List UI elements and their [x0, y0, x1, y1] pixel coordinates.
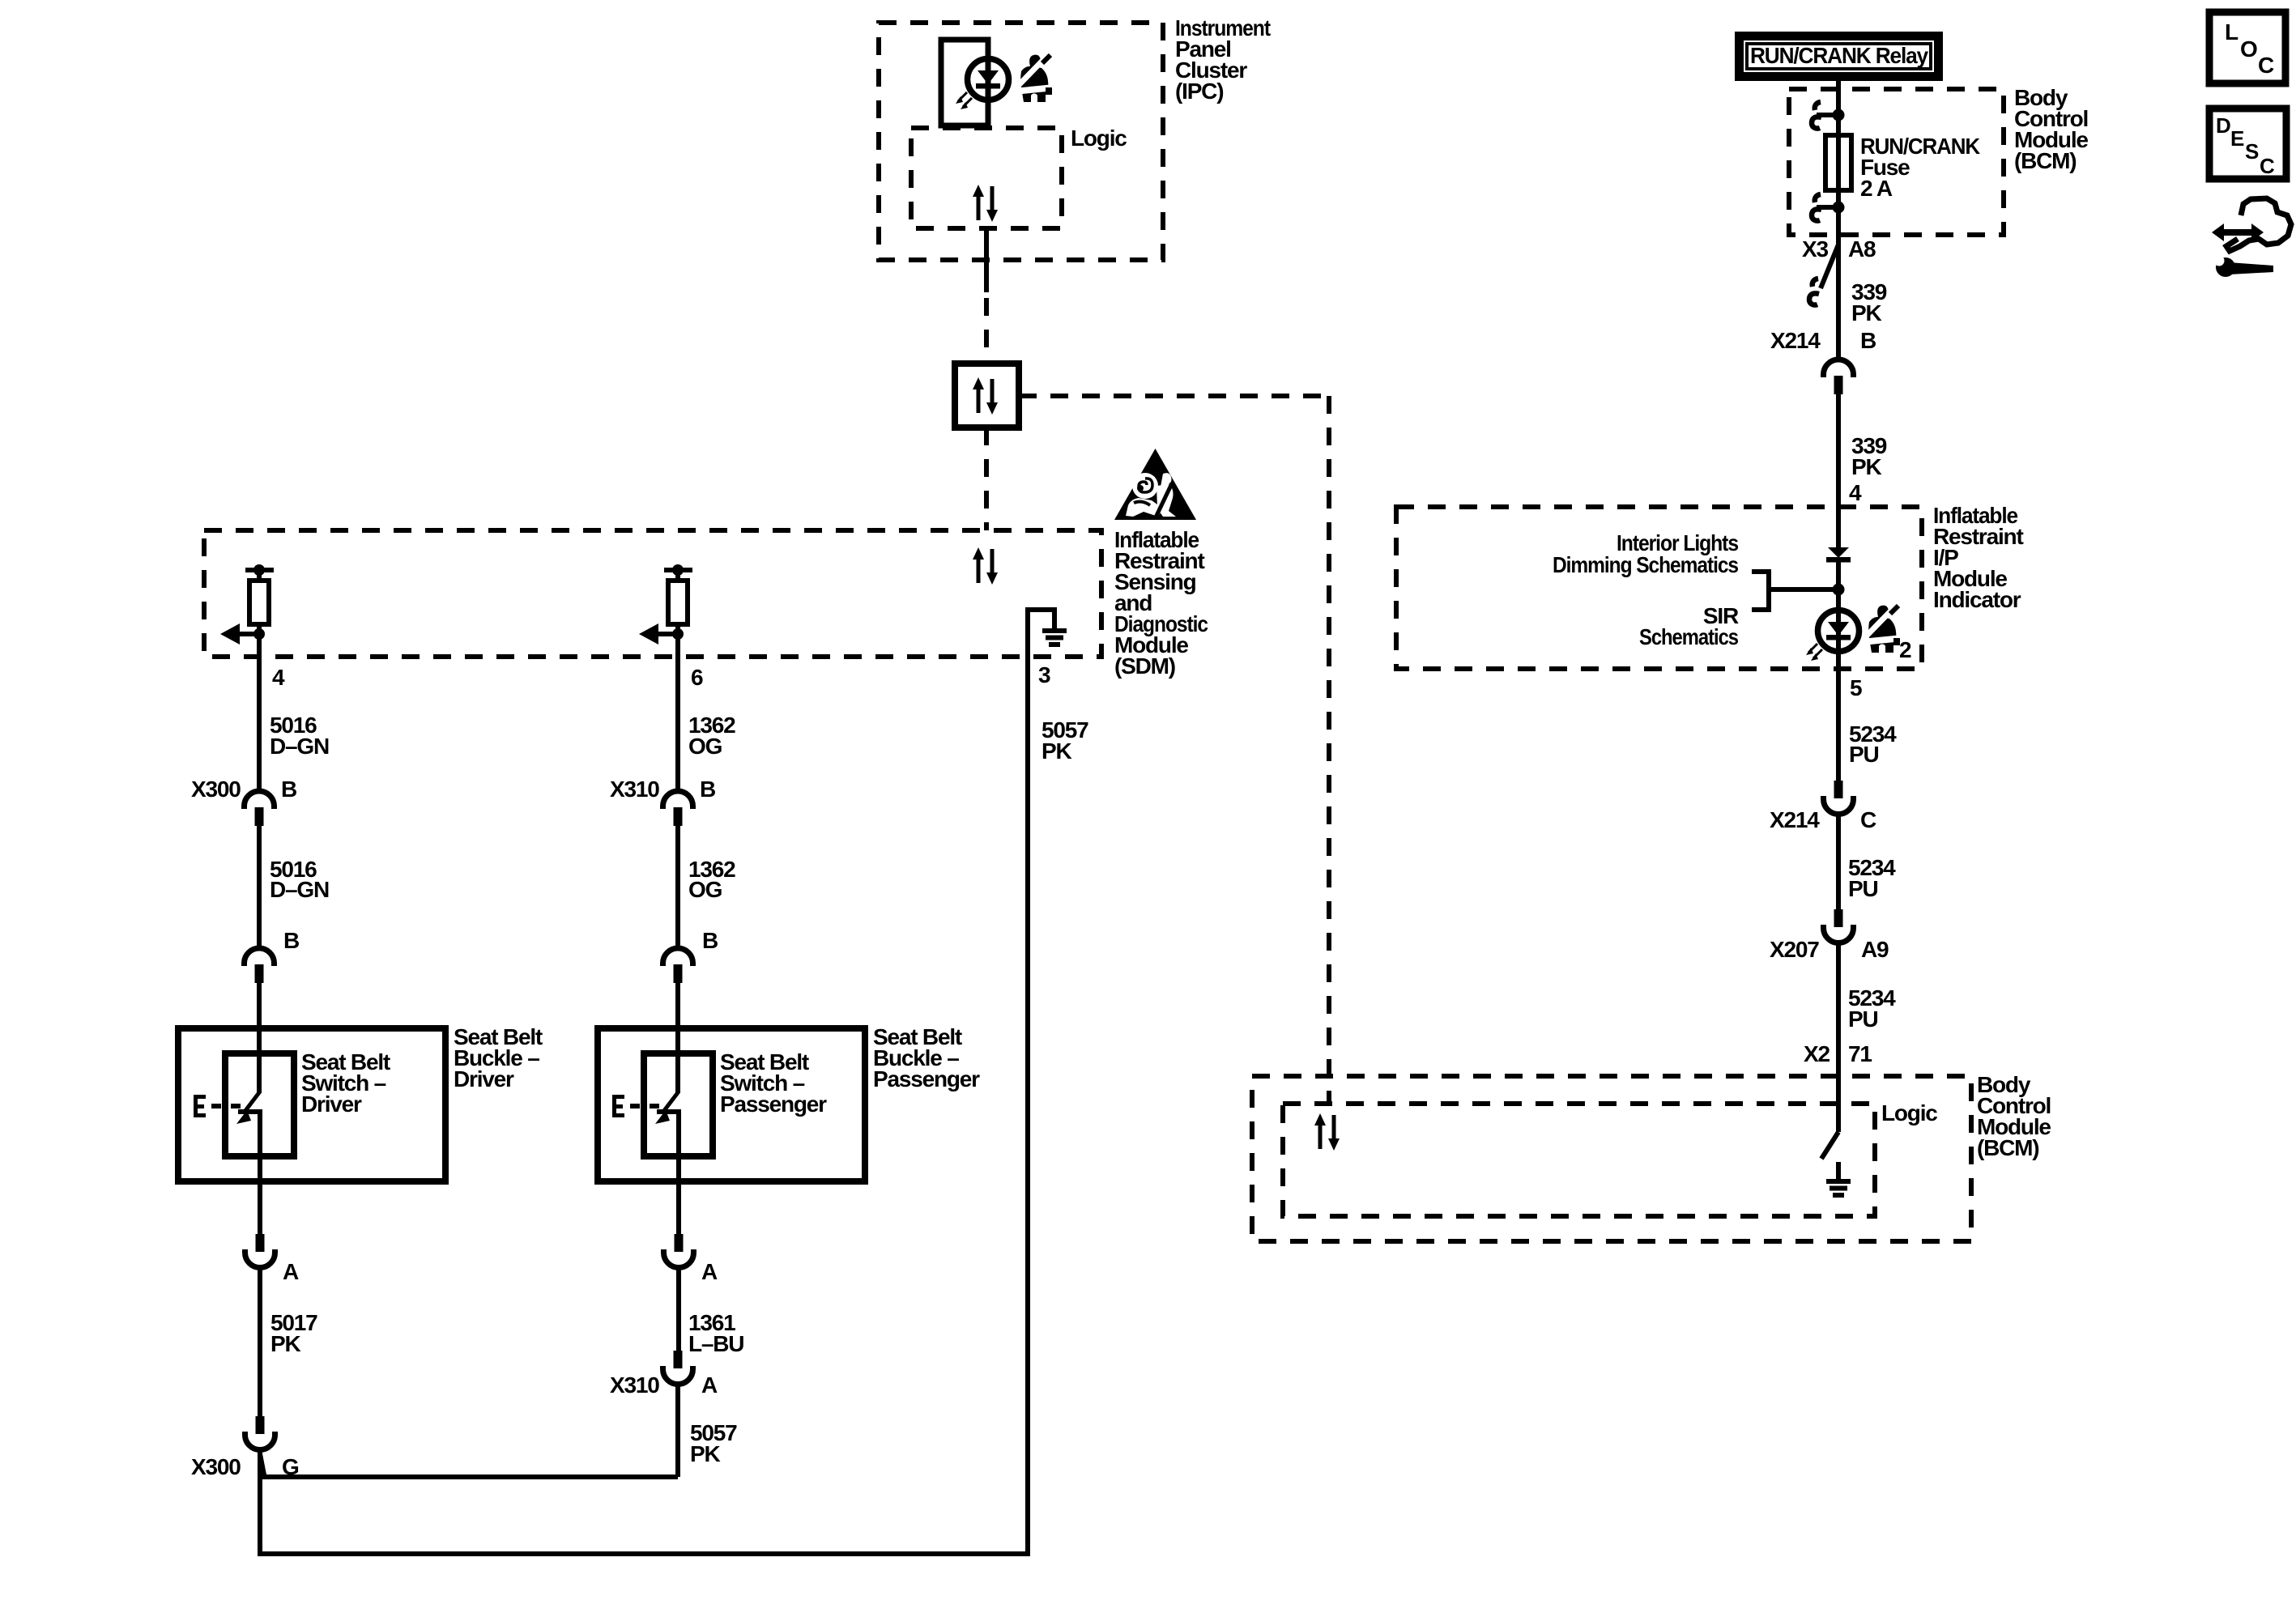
svg-text:C: C [1860, 807, 1876, 832]
wire X207 to BCM [1836, 943, 1841, 1132]
RUN/CRANK Fuse 2 A [1825, 135, 1851, 190]
seat belt icon (IPC) [1018, 55, 1052, 102]
wire label 5234 PU (2) [1848, 855, 1896, 901]
wire label 5234 PU (1) [1849, 721, 1897, 767]
wire X214C to X207 [1836, 814, 1841, 909]
inner switch rect (driver) [225, 1053, 294, 1156]
lower contact (driver) [238, 1112, 260, 1181]
ground hook at SDM [1028, 610, 1054, 628]
wire below X300 B [257, 825, 262, 949]
wire below passenger switch box [676, 1181, 681, 1234]
connector seat belt buckle driver pin B [245, 948, 275, 983]
svg-text:(BCM): (BCM) [2014, 148, 2076, 173]
wire: SDM pin 6 down to X310 [675, 640, 680, 792]
wire resistor to node (passenger) [675, 624, 680, 640]
wire label 5057 PK (passenger) [690, 1420, 737, 1466]
svg-text:X3: X3 [1802, 236, 1828, 262]
svg-text:B: B [702, 928, 718, 953]
svg-text:C: C [2260, 154, 2275, 178]
serial data communication node box [955, 364, 1019, 428]
RUN/CRANK Relay title box [1735, 32, 1943, 81]
repair info arrow-wrench icon [2212, 198, 2291, 277]
svg-text:Logic: Logic [1881, 1100, 1937, 1126]
wire label 5016 D-GN (lower) [270, 857, 329, 902]
svg-text:(SDM): (SDM) [1114, 653, 1175, 679]
svg-text:2: 2 [1899, 637, 1911, 662]
svg-text:B: B [281, 777, 296, 802]
svg-text:X214: X214 [1770, 328, 1821, 353]
connector X300 pin B [245, 791, 275, 826]
IPC Logic box [911, 128, 1062, 228]
svg-text:4: 4 [272, 665, 285, 690]
wire resistor to node [257, 624, 262, 640]
BCM upper label [2014, 85, 2088, 173]
wire label 5016 D-GN (upper) [270, 713, 329, 759]
resistor (passenger sense pull-up) [668, 581, 688, 624]
svg-text:(IPC): (IPC) [1175, 79, 1223, 104]
wire label 1362 OG (lower) [688, 857, 735, 902]
wire 5057 PK passenger down to splice [675, 1384, 680, 1477]
wire junction below X300 G [258, 1449, 262, 1556]
wire label 5017 PK [270, 1310, 317, 1356]
wire label 1361 L-BU [688, 1310, 743, 1356]
svg-text:X300: X300 [191, 1454, 241, 1479]
svg-text:X2: X2 [1804, 1041, 1830, 1066]
switch blade (passenger) [663, 1091, 679, 1112]
svg-text:PU: PU [1849, 742, 1879, 767]
svg-text:Schematics: Schematics [1639, 624, 1739, 649]
wire from relay into BCM [1836, 81, 1841, 135]
sense arrow (driver) [240, 632, 259, 636]
svg-text:4: 4 [1849, 480, 1862, 505]
bottom ground run wire [258, 1551, 1030, 1556]
BCM lower label [1977, 1072, 2051, 1160]
svg-text:D: D [2216, 113, 2230, 138]
sense arrow (passenger) [658, 632, 678, 636]
BCM lower Logic box [1283, 1104, 1875, 1216]
dashed serial data wire down right side to BCM [1327, 396, 1331, 1104]
Inflatable Restraint I/P Module Indicator box [1396, 507, 1922, 669]
connector X207 pin A9 [1824, 909, 1854, 943]
svg-text:2 A: 2 A [1860, 176, 1893, 201]
Inflatable Restraint Sensing and Diagnostic Module (SDM) box [204, 530, 1101, 657]
svg-text:D–GN: D–GN [270, 734, 329, 759]
svg-text:Driver: Driver [454, 1066, 514, 1091]
svg-text:L: L [2225, 19, 2238, 45]
junction dot passenger resistor top [672, 564, 684, 576]
svg-text:71: 71 [1848, 1041, 1872, 1066]
wire stub to resistor R driver [257, 570, 262, 581]
wire from IPC logic down [984, 228, 989, 292]
svg-text:PK: PK [1851, 300, 1881, 326]
wire below driver switch box [258, 1181, 262, 1234]
indicator LED lamp [1806, 611, 1859, 662]
svg-text:X207: X207 [1770, 937, 1819, 962]
SDM driver resistor pull-up: top rail [245, 568, 274, 572]
wire: IPC lamp loop [941, 40, 988, 126]
svg-text:PU: PU [1848, 1006, 1878, 1032]
svg-text:PK: PK [690, 1441, 720, 1466]
Instrument Panel Cluster (IPC) module box [879, 23, 1163, 260]
wire label 339 PK (lower) [1851, 433, 1887, 479]
connector X214 pin B [1824, 360, 1854, 394]
svg-text:Passenger: Passenger [720, 1091, 827, 1117]
ground wire up to SDM pin 3 [1025, 607, 1030, 1556]
wire label 5234 PU (3) [1848, 985, 1896, 1032]
svg-text:B: B [283, 928, 299, 953]
svg-text:C: C [2258, 53, 2274, 78]
svg-text:OG: OG [688, 734, 722, 759]
wire into driver switch box [257, 982, 262, 1093]
wire 1361 L-BU [676, 1267, 681, 1351]
svg-text:PU: PU [1848, 876, 1878, 901]
svg-text:X300: X300 [191, 777, 241, 802]
indicator lamp (seat belt LED) in IPC [956, 59, 1009, 110]
seat belt icon (indicator) with 2 [1866, 606, 1900, 653]
junction dot driver sense node [253, 628, 265, 640]
tap wire to schematic references [1769, 587, 1838, 592]
svg-text:Indicator: Indicator [1933, 587, 2021, 612]
wire label 1362 OG (upper) [688, 713, 735, 759]
svg-text:O: O [2240, 36, 2257, 62]
svg-text:L–BU: L–BU [688, 1331, 743, 1356]
Body Control Module (BCM) lower box [1252, 1076, 1971, 1241]
actuator E-- (driver) [194, 1095, 241, 1117]
wire: SDM pin 4 down to X300 [257, 640, 262, 792]
wire diode to node [1836, 562, 1841, 611]
svg-text:A: A [701, 1372, 718, 1398]
svg-text:X214: X214 [1770, 807, 1820, 832]
connector X300 pin G [245, 1416, 275, 1450]
svg-text:X310: X310 [610, 777, 659, 802]
LOC reference icon [2209, 12, 2285, 83]
serial data arrows in SDM [973, 547, 998, 585]
wire below X310 B [675, 825, 680, 949]
ground symbol (BCM) [1826, 1179, 1851, 1198]
svg-text:PK: PK [1042, 738, 1071, 764]
svg-text:6: 6 [691, 665, 703, 690]
svg-text:(BCM): (BCM) [1977, 1135, 2038, 1160]
junction dot passenger sense node [672, 628, 684, 640]
ground splice wire from passenger to driver column [260, 1474, 678, 1479]
svg-text:A8: A8 [1848, 236, 1876, 262]
SDM passenger resistor pull-up: top rail [664, 568, 692, 572]
svg-text:X310: X310 [610, 1372, 659, 1398]
DESC reference icon [2209, 109, 2286, 179]
svg-text:Driver: Driver [301, 1091, 362, 1117]
svg-text:B: B [1860, 328, 1876, 353]
label Seat Belt Buckle - Driver [454, 1024, 543, 1091]
svg-text:A: A [701, 1259, 718, 1284]
svg-text:PK: PK [270, 1331, 300, 1356]
svg-text:S: S [2245, 139, 2259, 164]
label Seat Belt Switch - Driver [301, 1049, 390, 1117]
connector seat belt buckle passenger pin B [663, 948, 693, 983]
svg-text:B: B [700, 777, 715, 802]
blocking diode [1826, 547, 1851, 563]
svg-text:RUN/CRANK Relay: RUN/CRANK Relay [1750, 43, 1929, 68]
actuator E-- (passenger) [612, 1095, 659, 1117]
wire into passenger switch box [675, 982, 680, 1093]
serial data arrows in IPC logic [973, 185, 998, 222]
wire 5017 PK [258, 1267, 262, 1416]
connector X310 pin B [663, 791, 693, 826]
connector X3 terminal A8 stub [1821, 245, 1838, 288]
svg-text:3: 3 [1038, 662, 1050, 687]
wire fuse to bottom terminal [1836, 190, 1841, 235]
svg-text:OG: OG [688, 877, 722, 902]
svg-text:Passenger: Passenger [873, 1066, 980, 1091]
svg-text:PK: PK [1851, 454, 1881, 479]
Body Control Module (BCM) upper box [1789, 89, 2004, 235]
wire LED down to pin 5 [1836, 611, 1841, 781]
ground symbol (SDM pin 3) [1042, 628, 1067, 647]
dashed serial data wire down to comm node [984, 298, 989, 364]
svg-text:A9: A9 [1861, 937, 1889, 962]
inner switch rect (passenger) [644, 1053, 713, 1156]
junction dot (dimming tap) [1833, 584, 1845, 596]
label Seat Belt Switch - Passenger [720, 1049, 827, 1117]
wire label 5057 PK (to SDM) [1042, 717, 1088, 764]
lower contact (passenger) [657, 1112, 679, 1181]
IPC module label [1175, 15, 1271, 104]
switch to ground in BCM [1821, 1132, 1838, 1159]
connector buckle driver pin A [245, 1234, 275, 1268]
Seat Belt Switch - Driver box [178, 1028, 445, 1181]
label SIR Schematics [1639, 603, 1739, 649]
reference bracket [1752, 572, 1769, 610]
svg-text:E: E [2230, 126, 2244, 151]
connector X310 pin A [663, 1351, 693, 1385]
svg-text:5: 5 [1850, 675, 1862, 700]
connector buckle passenger pin A [664, 1234, 694, 1268]
wire 339 PK lower [1836, 394, 1841, 547]
dashed serial data wire right from comm node [1019, 394, 1329, 398]
airbag warning triangle icon [1114, 449, 1196, 520]
dashed serial data wire from comm node down into SDM [984, 428, 989, 530]
svg-text:A: A [283, 1259, 299, 1284]
serial data arrows in comm node [973, 377, 998, 415]
junction dot driver resistor top [253, 564, 265, 576]
SDM module label [1114, 527, 1208, 679]
svg-text:D–GN: D–GN [270, 877, 329, 902]
svg-text:Dimming Schematics: Dimming Schematics [1553, 552, 1739, 577]
resistor (driver sense pull-up) [249, 581, 269, 624]
wire out of BCM down [1836, 235, 1841, 360]
relay output terminal hook (top) [1812, 102, 1821, 129]
svg-text:Logic: Logic [1071, 126, 1127, 151]
label Interior Lights Dimming Schematics [1553, 530, 1739, 577]
ground stub in BCM [1836, 1162, 1841, 1180]
switch blade (driver) [245, 1091, 260, 1112]
connector X214 pin C [1824, 781, 1854, 815]
wire stub to resistor passenger [675, 570, 680, 581]
Seat Belt Switch - Passenger box [598, 1028, 865, 1181]
indicator module label [1933, 503, 2023, 612]
junction dot (bottom terminal) [1833, 202, 1845, 214]
serial data arrows in BCM logic [1314, 1113, 1340, 1151]
junction dot (top terminal) [1833, 109, 1845, 121]
fuse label [1860, 134, 1980, 201]
fuse output terminal hook (bottom) [1812, 194, 1821, 221]
label Seat Belt Buckle - Passenger [873, 1024, 980, 1091]
wire label 339 PK (upper) [1851, 279, 1887, 326]
